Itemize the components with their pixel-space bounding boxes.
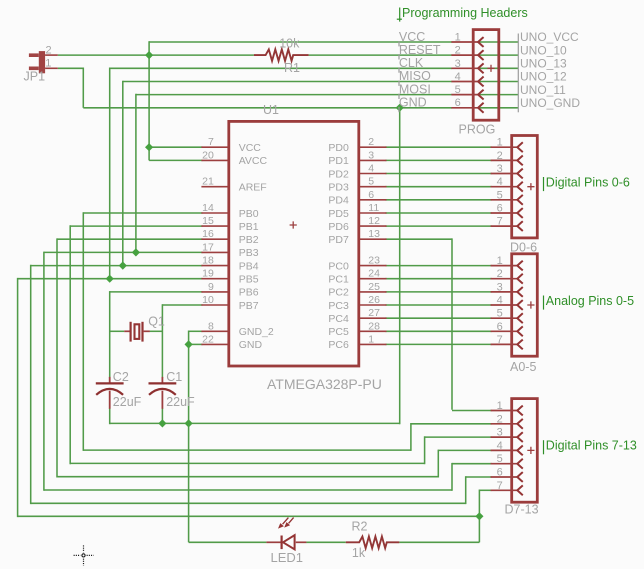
wire D13 net: U1 PB5 left xyxy=(18,278,203,280)
svg-text:3: 3 xyxy=(497,281,503,293)
wire VCC net: to U1 AVCC pin xyxy=(149,159,202,161)
wire XTAL1 net: to crystal left xyxy=(110,330,125,332)
wire A2 net: U1 PC2 to A0-5 pin 3 xyxy=(386,291,492,293)
svg-text:3: 3 xyxy=(497,427,503,439)
svg-text:U1: U1 xyxy=(263,103,279,117)
U1 pin 28 PC5 xyxy=(328,320,386,338)
connector PROG pin 6 xyxy=(451,97,483,113)
U1 pin 2 PD0 xyxy=(328,136,386,154)
node CLK/PB5 junction xyxy=(106,275,114,283)
svg-text:14: 14 xyxy=(202,202,214,214)
wire GND net: vertical down xyxy=(82,68,84,108)
svg-text:Programming Headers: Programming Headers xyxy=(402,6,528,20)
svg-text:PD5: PD5 xyxy=(328,208,349,220)
svg-text:GND: GND xyxy=(239,339,263,351)
svg-text:18: 18 xyxy=(202,255,214,267)
U1 pin 24 PC1 xyxy=(328,268,386,286)
wire D10 net: left vertical xyxy=(56,238,58,477)
U1 pin 23 PC0 xyxy=(328,255,386,273)
connector D0-6 pin 4 xyxy=(491,176,523,191)
connector A0-5 pin 1 xyxy=(491,255,523,270)
net label RESET xyxy=(399,43,441,60)
wire D9 net: U1 PB1 left xyxy=(70,225,202,227)
connector A0-5 pin 3 xyxy=(491,281,523,296)
U1 pin 25 PC2 xyxy=(328,281,386,299)
wire GND net: to LED1 cathode lead xyxy=(189,541,267,543)
svg-text:PC0: PC0 xyxy=(328,260,349,272)
U1 pin 8 GND_2 xyxy=(201,320,273,338)
connector D0-6 body xyxy=(512,136,538,238)
svg-text:4: 4 xyxy=(497,295,503,307)
svg-text:7: 7 xyxy=(497,216,503,228)
svg-text:5: 5 xyxy=(497,189,503,201)
svg-text:2: 2 xyxy=(497,150,503,162)
connector PROG pin 1 xyxy=(451,32,483,47)
svg-text:ATMEGA328P-PU: ATMEGA328P-PU xyxy=(267,376,382,392)
svg-text:VCC: VCC xyxy=(399,30,425,44)
svg-text:4: 4 xyxy=(368,163,374,175)
connector PROG pin 5 xyxy=(451,84,483,99)
connector D0-6 origin cross xyxy=(527,183,534,190)
svg-text:7: 7 xyxy=(208,136,214,148)
svg-text:6: 6 xyxy=(497,467,503,479)
wire A1 net: U1 PC1 to A0-5 pin 2 xyxy=(386,278,492,280)
text label Programming Headers tick xyxy=(399,8,401,22)
connector D0-6 pin 2 xyxy=(491,150,523,165)
svg-text:2: 2 xyxy=(368,136,374,148)
connector D7-13 pin 1 xyxy=(491,400,523,415)
wire D3 net: U1 PD3 to D0-6 pin 4 xyxy=(386,186,492,188)
connector D0-6 pin 3 xyxy=(491,163,523,178)
connector PROG pin 2 xyxy=(451,45,483,60)
U1 pin 16 PB2 xyxy=(201,228,258,246)
wire XTAL1 net: vertical to C2 xyxy=(109,291,111,377)
svg-text:10k: 10k xyxy=(279,37,300,51)
svg-text:7: 7 xyxy=(497,334,503,346)
svg-text:PD7: PD7 xyxy=(328,234,349,246)
svg-text:JP1: JP1 xyxy=(24,70,46,84)
wire D13 net: into D7-13 pin 7 xyxy=(479,489,491,491)
U1 pin 3 PD1 xyxy=(328,149,386,167)
wire MOSI net: vertical down to PB3 xyxy=(135,94,137,253)
connector PROG pin 3 xyxy=(451,58,483,73)
svg-text:PD0: PD0 xyxy=(328,142,349,154)
connector D7-13 body xyxy=(512,399,538,503)
svg-text:Q1: Q1 xyxy=(148,315,165,329)
wire D11 net: bottom horizontal xyxy=(44,489,452,491)
wire D10 net: U1 PB2 left xyxy=(57,238,202,240)
U1 pin 19 PB5 xyxy=(201,268,258,286)
svg-text:27: 27 xyxy=(368,307,380,319)
svg-text:D7-13: D7-13 xyxy=(505,503,539,517)
svg-text:PC4: PC4 xyxy=(328,313,349,325)
wire MISO net: vertical down to PB4 xyxy=(122,81,124,266)
U1 pin 6 PD4 xyxy=(328,189,386,207)
net label MOSI xyxy=(399,82,431,99)
diode LED1 xyxy=(266,518,306,550)
svg-text:LED1: LED1 xyxy=(271,550,304,565)
svg-text:PB5: PB5 xyxy=(239,274,259,286)
U1 pin 13 PD7 xyxy=(328,228,386,246)
svg-text:22: 22 xyxy=(202,333,214,345)
resistor R1 xyxy=(254,49,309,61)
node VCC junction at R1/JP1 xyxy=(145,51,153,59)
wire D10 net: into D7-13 pin 4 xyxy=(438,449,491,451)
wire D7 net: into D7-13 pin 1 xyxy=(452,410,492,412)
svg-text:A0-5: A0-5 xyxy=(510,360,536,374)
wire D8 net: step vertical xyxy=(410,423,412,451)
svg-text:MISO: MISO xyxy=(399,69,431,83)
U1 pin 21 AREF xyxy=(201,176,266,194)
svg-text:C2: C2 xyxy=(113,370,129,384)
svg-text:5: 5 xyxy=(497,308,503,320)
wire D12 net: bottom horizontal xyxy=(31,502,466,504)
wire D8 net: left vertical xyxy=(82,212,84,451)
wire D9 net: into D7-13 pin 3 xyxy=(425,436,492,438)
svg-text:Analog Pins 0-5: Analog Pins 0-5 xyxy=(546,294,634,308)
wire D9 net: left vertical xyxy=(69,225,71,464)
svg-text:R2: R2 xyxy=(352,519,368,533)
wire MOSI net: horizontal to PROG pin5 xyxy=(136,94,452,96)
svg-text:2: 2 xyxy=(497,268,503,280)
svg-text:6: 6 xyxy=(497,203,503,215)
svg-text:PC1: PC1 xyxy=(328,274,349,286)
svg-text:3: 3 xyxy=(497,163,503,175)
wire D5 net: U1 PD5 to D0-6 pin 6 xyxy=(386,212,492,214)
svg-text:PC3: PC3 xyxy=(328,300,349,312)
wire XTAL1 net: U1 PB6 left xyxy=(110,291,203,293)
net label GND xyxy=(399,96,427,113)
svg-text:PC6: PC6 xyxy=(328,339,349,351)
wire D10 net: bottom horizontal xyxy=(57,476,438,478)
U1 pin 20 AVCC xyxy=(201,149,267,167)
svg-text:23: 23 xyxy=(368,255,380,267)
U1 pin 27 PC4 xyxy=(328,307,386,325)
svg-text:16: 16 xyxy=(202,228,214,240)
connector PROG origin cross xyxy=(487,65,494,72)
wire D10 net: step vertical xyxy=(437,450,439,478)
svg-text:7: 7 xyxy=(497,480,503,492)
svg-text:PD3: PD3 xyxy=(328,182,349,194)
connector A0-5 origin cross xyxy=(527,301,534,308)
wire VCC net: to PROG pin1 xyxy=(149,41,452,43)
svg-text:10: 10 xyxy=(202,294,214,306)
connector A0-5 body xyxy=(512,254,538,356)
wire VCC net: vertical down to U1 VCC xyxy=(148,41,150,147)
connector A0-5 pin 7 xyxy=(491,334,523,349)
node MOSI/PB3 junction xyxy=(132,248,140,256)
wire D7 net: vertical down xyxy=(451,238,453,409)
svg-text:Digital Pins 7-13: Digital Pins 7-13 xyxy=(546,439,637,453)
connector A0-5 pin 4 xyxy=(491,295,523,310)
svg-text:22uF: 22uF xyxy=(113,395,142,409)
wire net: vertical up to D13 line xyxy=(478,516,480,543)
svg-text:28: 28 xyxy=(368,320,380,332)
wire net UNO_10 stub xyxy=(478,54,518,56)
svg-text:13: 13 xyxy=(368,228,380,240)
svg-text:UNO_11: UNO_11 xyxy=(520,83,566,97)
U1 pin 26 PC3 xyxy=(328,294,386,312)
connector JP1 xyxy=(29,51,58,73)
svg-text:PD6: PD6 xyxy=(328,221,349,233)
U1 pin 11 PD5 xyxy=(328,202,386,220)
wire D11 net: into D7-13 pin 5 xyxy=(452,463,492,465)
svg-text:20: 20 xyxy=(202,149,214,161)
U1 pin 10 PB7 xyxy=(201,294,258,312)
connector D0-6 pin 1 xyxy=(491,137,523,152)
wire D8 net: into D7-13 pin 2 xyxy=(411,423,492,425)
net label MISO xyxy=(399,69,431,86)
svg-text:PD4: PD4 xyxy=(328,195,349,207)
connector D7-13 pin 2 xyxy=(491,413,523,428)
connector D0-6 pin 6 xyxy=(491,203,523,218)
U1 pin 17 PB3 xyxy=(201,241,258,259)
wire D13 net: bottom horizontal xyxy=(18,515,480,517)
text label Analog Pins 0-5 tick xyxy=(543,296,545,310)
wire D12 net: into D7-13 pin 6 xyxy=(466,476,492,478)
wire VCC net: to U1 VCC pin xyxy=(149,146,202,148)
wire D7 net: U1 PD7 right xyxy=(386,238,453,240)
U1 pin 14 PB0 xyxy=(201,202,258,220)
svg-text:17: 17 xyxy=(202,241,214,253)
wire RESET net: R1 to PROG pin2 xyxy=(309,54,452,56)
svg-text:26: 26 xyxy=(368,294,380,306)
wire D2 net: U1 PD2 to D0-6 pin 3 xyxy=(386,173,492,175)
crystal Q1 xyxy=(124,322,150,342)
svg-text:UNO_13: UNO_13 xyxy=(520,57,567,71)
connector D7-13 origin cross xyxy=(527,447,534,454)
capacitor C2 xyxy=(96,377,124,409)
svg-text:1: 1 xyxy=(497,255,503,267)
svg-text:4: 4 xyxy=(497,176,503,188)
svg-text:PB7: PB7 xyxy=(239,300,259,312)
svg-text:AVCC: AVCC xyxy=(239,155,268,167)
node GND junction on bus xyxy=(185,419,193,427)
wire XTAL2 net: vertical to C1 xyxy=(161,304,163,377)
svg-text:GND_2: GND_2 xyxy=(239,326,274,338)
svg-text:CLK: CLK xyxy=(399,56,424,70)
svg-text:PD1: PD1 xyxy=(328,155,349,167)
connector A0-5 pin 5 xyxy=(491,308,523,323)
wire A4 net: U1 PC4 to A0-5 pin 5 xyxy=(386,317,492,319)
wire D8 net: bottom horizontal xyxy=(83,449,411,451)
wire net UNO_12 stub xyxy=(478,81,518,83)
wire D13 net: left vertical xyxy=(17,278,19,517)
svg-text:1: 1 xyxy=(497,137,503,149)
op-amp U1 ATMEGA328P-PU ic body xyxy=(229,121,359,366)
wire GND net: U1 GND pin xyxy=(189,343,203,345)
svg-text:1k: 1k xyxy=(352,546,366,560)
svg-text:12: 12 xyxy=(368,215,380,227)
wire D8 net: U1 PB0 left xyxy=(83,212,202,214)
svg-text:25: 25 xyxy=(368,281,380,293)
svg-text:VCC: VCC xyxy=(239,142,262,154)
svg-text:PB6: PB6 xyxy=(239,287,259,299)
svg-text:2: 2 xyxy=(46,44,52,56)
U1 pin 7 VCC xyxy=(201,136,261,154)
svg-text:6: 6 xyxy=(455,97,461,109)
svg-text:GND: GND xyxy=(399,96,427,110)
text label Digital Pins 7-13 tick xyxy=(543,440,545,454)
svg-text:1: 1 xyxy=(497,400,503,412)
connector PROG body xyxy=(473,30,499,121)
svg-text:1: 1 xyxy=(45,58,51,70)
wire A5 net: U1 PC5 to A0-5 pin 6 xyxy=(386,330,492,332)
connector D7-13 pin 6 xyxy=(491,467,523,482)
U1 pin 5 PD3 xyxy=(328,176,386,194)
svg-text:AREF: AREF xyxy=(239,182,267,194)
svg-text:PC2: PC2 xyxy=(328,287,349,299)
svg-text:9: 9 xyxy=(208,281,214,293)
connector PROG pin 4 xyxy=(451,71,483,86)
wire XTAL2 net: crystal right xyxy=(150,330,163,332)
svg-text:4: 4 xyxy=(497,440,503,452)
capacitor C1 xyxy=(149,377,177,409)
svg-text:6: 6 xyxy=(497,321,503,333)
node GND junction at PROG pin6 xyxy=(396,104,404,112)
svg-text:6: 6 xyxy=(368,189,374,201)
U1 origin cross xyxy=(290,221,297,228)
connector D7-13 pin 7 xyxy=(491,480,523,495)
svg-text:PB4: PB4 xyxy=(239,260,259,272)
wire net UNO_11 stub xyxy=(478,94,518,96)
wire D6 net: U1 PD6 to D0-6 pin 7 xyxy=(386,225,492,227)
svg-text:11: 11 xyxy=(368,202,379,214)
wire A3 net: U1 PC3 to A0-5 pin 4 xyxy=(386,304,492,306)
svg-text:4: 4 xyxy=(455,71,461,83)
wire D11 net: U1 PB3 left xyxy=(44,251,203,253)
svg-text:1: 1 xyxy=(368,333,374,345)
svg-text:3: 3 xyxy=(368,149,374,161)
connector A0-5 pin 2 xyxy=(491,268,523,283)
wire GND bus horizontal xyxy=(110,422,400,424)
wire VCC net: JP1 pin2 to junction xyxy=(58,54,149,56)
wire VCC net: vertical to AVCC row xyxy=(148,147,150,160)
node GND junction at C1 bottom xyxy=(158,419,166,427)
wire GND net: U1 GND_2 pin xyxy=(189,330,203,332)
node D13 junction to R2 xyxy=(475,512,483,520)
wire A0 net: U1 PC0 to A0-5 pin 1 xyxy=(386,265,492,267)
origin crosshair marker xyxy=(74,545,94,565)
wire D13 net: step vertical xyxy=(478,490,480,518)
svg-text:21: 21 xyxy=(202,176,214,188)
svg-text:PD2: PD2 xyxy=(328,168,349,180)
wire gnd: C1 bottom to bus xyxy=(161,408,163,423)
svg-text:PROG: PROG xyxy=(459,123,496,137)
wire D1 net: U1 PD1 to D0-6 pin 2 xyxy=(386,159,492,161)
svg-text:5: 5 xyxy=(455,84,461,96)
wire net R2 to vertical xyxy=(399,541,479,543)
wire GND net: JP1 pin1 right xyxy=(58,67,84,69)
svg-text:15: 15 xyxy=(202,215,214,227)
U1 pin 12 PD6 xyxy=(328,215,386,233)
U1 pin 9 PB6 xyxy=(201,281,258,299)
svg-text:R1: R1 xyxy=(284,61,300,75)
wire D11 net: step vertical xyxy=(451,463,453,491)
wire VCC net: junction to R1 left lead xyxy=(149,54,254,56)
svg-text:PB3: PB3 xyxy=(239,247,259,259)
wire CLK net: vertical down to PB5 xyxy=(109,68,111,279)
U1 pin 18 PB4 xyxy=(201,255,258,273)
wire GND net: vertical to LED xyxy=(188,331,190,543)
svg-text:Digital Pins 0-6: Digital Pins 0-6 xyxy=(546,175,630,189)
svg-text:UNO_VCC: UNO_VCC xyxy=(520,30,579,44)
net label CLK xyxy=(399,56,424,73)
net label tick line for UNO labels xyxy=(517,34,519,113)
svg-text:2: 2 xyxy=(497,413,503,425)
svg-text:PB0: PB0 xyxy=(239,208,259,220)
svg-text:RESET: RESET xyxy=(399,43,441,57)
wire D9 net: bottom horizontal xyxy=(70,462,424,464)
wire net UNO_GND stub xyxy=(478,107,518,109)
resistor R2 xyxy=(346,537,400,549)
connector D0-6 pin 5 xyxy=(491,189,523,204)
wire D12 net: step vertical xyxy=(465,476,467,504)
wire D11 net: left vertical xyxy=(43,252,45,491)
U1 pin 1 PC6 xyxy=(328,333,386,351)
connector A0-5 pin 6 xyxy=(491,321,523,336)
svg-text:5: 5 xyxy=(497,453,503,465)
wire D12 net: U1 PB4 left xyxy=(31,265,203,267)
wire GND net: vertical to ground bus xyxy=(399,108,401,424)
connector D7-13 pin 4 xyxy=(491,440,523,455)
node VCC junction at U1 VCC pin xyxy=(145,143,153,151)
connector D0-6 pin 7 xyxy=(491,216,523,231)
svg-text:3: 3 xyxy=(455,58,461,70)
svg-text:PC5: PC5 xyxy=(328,326,349,338)
svg-text:8: 8 xyxy=(208,320,214,332)
svg-text:PB1: PB1 xyxy=(239,221,259,233)
wire D12 net: left vertical xyxy=(30,265,32,504)
U1 pin 22 GND xyxy=(201,333,262,351)
wire CLK net: horizontal to PROG pin3 xyxy=(110,67,452,69)
svg-text:UNO_GND: UNO_GND xyxy=(520,96,580,110)
wire D9 net: step vertical xyxy=(424,436,426,464)
svg-text:5: 5 xyxy=(368,176,374,188)
wire D0 net: U1 PD0 to D0-6 pin 1 xyxy=(386,146,492,148)
net label VCC xyxy=(399,30,425,47)
svg-text:UNO_10: UNO_10 xyxy=(520,43,567,57)
svg-text:UNO_12: UNO_12 xyxy=(520,70,567,84)
wire MISO net: horizontal to PROG pin4 xyxy=(123,81,452,83)
svg-text:1: 1 xyxy=(455,32,461,44)
connector D7-13 pin 5 xyxy=(491,453,523,468)
svg-text:C1: C1 xyxy=(166,370,182,384)
svg-text:24: 24 xyxy=(368,268,380,280)
wire GND net: horizontal to PROG pin6 xyxy=(83,107,452,109)
svg-text:19: 19 xyxy=(202,268,214,280)
wire net UNO_VCC stub xyxy=(478,41,518,43)
connector D7-13 pin 3 xyxy=(491,427,523,442)
wire A6 net: U1 PC6 to A0-5 pin 7 xyxy=(386,343,492,345)
svg-text:22uF: 22uF xyxy=(166,395,195,409)
node MISO/PB4 junction xyxy=(119,261,127,269)
node GND junction at U1 GND pin xyxy=(185,340,193,348)
wire XTAL2 net: U1 PB7 left xyxy=(162,304,202,306)
svg-text:PB2: PB2 xyxy=(239,234,259,246)
U1 pin 15 PB1 xyxy=(201,215,258,233)
U1 pin 4 PD2 xyxy=(328,163,386,181)
wire net LED1 anode to R2 xyxy=(306,541,346,543)
wire D4 net: U1 PD4 to D0-6 pin 5 xyxy=(386,199,492,201)
wire net UNO_13 stub xyxy=(478,67,518,69)
text label Digital Pins 0-6 tick xyxy=(543,177,545,191)
svg-text:MOSI: MOSI xyxy=(399,82,431,96)
svg-text:2: 2 xyxy=(455,45,461,57)
svg-text:D0-6: D0-6 xyxy=(510,241,537,255)
wire gnd: C2 bottom to bus xyxy=(109,408,111,424)
